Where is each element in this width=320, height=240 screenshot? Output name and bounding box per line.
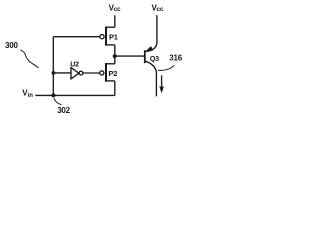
wire Vcc lead to P1 source <box>114 15 116 27</box>
wire U2 output to P2 gate <box>83 72 100 74</box>
leader 316 <box>158 65 175 70</box>
svg-text:P1: P1 <box>109 32 118 41</box>
svg-text:Q3: Q3 <box>150 56 159 63</box>
label Vcc (right) <box>152 4 164 13</box>
wire U2 input <box>53 72 71 74</box>
svg-text:P2: P2 <box>109 69 118 78</box>
transistor P1 <box>100 27 118 46</box>
transistor Q3 <box>145 15 159 96</box>
svg-text:Vcc: Vcc <box>109 4 121 13</box>
svg-text:300: 300 <box>5 41 18 50</box>
leader 302 <box>54 98 62 105</box>
wire node to Q3 base <box>115 55 144 57</box>
wire P1 gate line <box>53 36 100 38</box>
label Vcc (left) <box>109 4 121 13</box>
wire left rail (Vin to P1 gate) <box>52 37 54 96</box>
wire Vin line <box>35 94 115 96</box>
svg-text:302: 302 <box>57 106 70 115</box>
inverter U2 <box>70 62 83 79</box>
label 316 <box>169 53 182 62</box>
node junction dot (P1/P2/Q3 base) <box>113 54 117 58</box>
label 300 <box>5 41 18 50</box>
junction dot rail/U2 input <box>52 71 56 75</box>
label 302 <box>57 106 70 115</box>
wire P2 drain down and to Vin line <box>114 81 116 96</box>
svg-text:Vin: Vin <box>22 89 33 99</box>
wire P1 drain to node <box>114 45 116 56</box>
current direction arrow <box>160 75 164 92</box>
svg-text:Vcc: Vcc <box>152 4 164 13</box>
junction dot Vin/rail <box>51 93 55 97</box>
label Vin <box>22 89 33 99</box>
leader 300 squiggle <box>21 50 39 68</box>
transistor P2 <box>100 56 118 82</box>
svg-text:316: 316 <box>169 53 182 62</box>
